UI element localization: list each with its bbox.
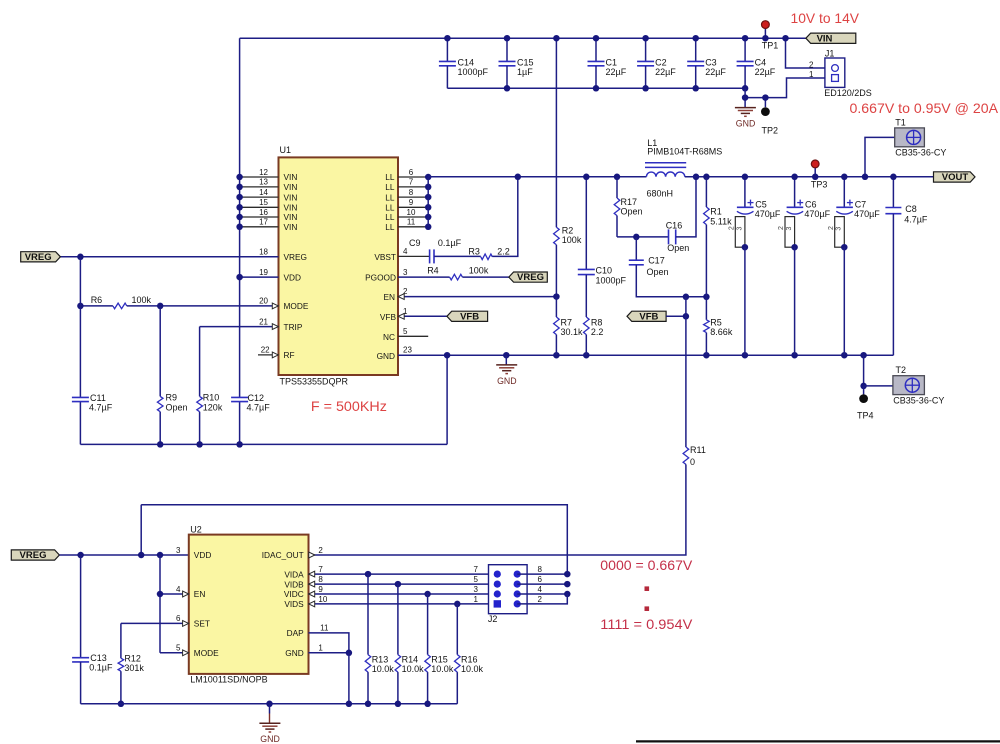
U2 pin 10 VIDS <box>309 603 498 605</box>
svg-text:7: 7 <box>409 178 414 187</box>
U2 pin 9 VIDC <box>309 593 498 595</box>
U1 pin 6 LL <box>398 176 428 178</box>
U1 pin 23 GND / main ground rail <box>398 354 893 356</box>
svg-text:20: 20 <box>259 297 268 306</box>
wire VREG vertical to C11 <box>79 257 81 398</box>
svg-text:2.2: 2.2 <box>591 327 604 337</box>
svg-text:3: 3 <box>736 227 743 231</box>
svg-text:3: 3 <box>474 585 479 594</box>
svg-text:R7: R7 <box>561 318 573 328</box>
capacitor C13 <box>80 555 82 658</box>
svg-text:LL: LL <box>385 182 395 192</box>
U1 pin 3 PGOOD <box>398 276 450 278</box>
svg-text:30.1k: 30.1k <box>561 327 584 337</box>
wire VFB flag to node <box>666 315 686 317</box>
svg-text:9: 9 <box>318 585 323 594</box>
svg-text:R14: R14 <box>402 655 419 665</box>
test point TP2 <box>764 98 766 108</box>
svg-text:22µF: 22µF <box>655 67 676 77</box>
capacitor C14 <box>446 38 448 61</box>
svg-text:VREG: VREG <box>284 252 308 262</box>
svg-text:SET: SET <box>194 619 210 629</box>
svg-text:10: 10 <box>318 595 327 604</box>
svg-text:R3: R3 <box>468 246 480 256</box>
svg-text:10.0k: 10.0k <box>431 664 454 674</box>
U1 pin 8 LL <box>398 196 428 198</box>
svg-text:3: 3 <box>786 227 793 231</box>
svg-text:VIDB: VIDB <box>284 579 304 589</box>
svg-text:VIN: VIN <box>284 222 298 232</box>
svg-text:Open: Open <box>667 243 689 253</box>
ground input <box>735 107 756 109</box>
resistor R13 <box>367 574 369 655</box>
svg-text:PIMB104T-R68MS: PIMB104T-R68MS <box>647 147 722 157</box>
capacitor C10 <box>585 177 587 269</box>
ground mid <box>505 355 507 365</box>
svg-text:C6: C6 <box>805 200 817 210</box>
U2 pin 6 SET <box>121 622 189 624</box>
svg-text:R4: R4 <box>427 265 439 275</box>
resistor R4 <box>450 274 463 280</box>
resistor R9 <box>159 306 161 397</box>
svg-text:22µF: 22µF <box>705 67 726 77</box>
wire loop left riser <box>140 505 142 555</box>
svg-text:LL: LL <box>385 203 395 213</box>
wire switch node rail to L1 <box>428 176 646 178</box>
U2 pin 11 DAP <box>309 633 349 653</box>
U1 pin 4 VBST <box>398 255 429 257</box>
svg-text:VIN: VIN <box>284 203 298 213</box>
svg-text:12: 12 <box>259 168 268 177</box>
svg-text:VIN: VIN <box>284 212 298 222</box>
svg-text:9: 9 <box>409 198 414 207</box>
svg-text:TP3: TP3 <box>811 180 828 190</box>
svg-text:C16: C16 <box>666 220 683 230</box>
svg-text:100k: 100k <box>469 265 489 275</box>
svg-text:VFB: VFB <box>460 311 479 322</box>
svg-text:C12: C12 <box>248 393 265 403</box>
resistor R5 <box>705 297 707 320</box>
wire input cap bottom rail <box>447 87 745 89</box>
U1 pin 20 MODE / resistor R6 net <box>80 305 113 307</box>
svg-text:VIN: VIN <box>284 172 298 182</box>
wire J2 pin 8 <box>517 573 567 575</box>
svg-text:14: 14 <box>259 188 268 197</box>
resistor R1 <box>703 174 710 181</box>
svg-text:R1: R1 <box>710 206 722 216</box>
wire J2 pin 6 <box>517 583 567 585</box>
svg-text:VFB: VFB <box>380 312 397 322</box>
U1 pin 13 VIN <box>240 186 279 188</box>
svg-text:VDD: VDD <box>194 550 212 560</box>
capacitor C9 <box>429 249 431 263</box>
svg-text:1: 1 <box>809 70 814 79</box>
svg-text:R10: R10 <box>203 392 220 402</box>
svg-text:VIDC: VIDC <box>284 589 304 599</box>
net flag VREG (U2) <box>11 550 59 560</box>
resistor R14 <box>397 584 399 655</box>
net flag VIN <box>806 33 856 43</box>
svg-text:GND: GND <box>497 376 517 386</box>
svg-text:R11: R11 <box>690 445 706 455</box>
annotation dots <box>645 586 650 591</box>
svg-text:T2: T2 <box>896 365 907 375</box>
svg-text:2.2: 2.2 <box>497 246 510 256</box>
svg-text:TP4: TP4 <box>857 410 874 420</box>
svg-text:F = 500KHz: F = 500KHz <box>311 398 387 414</box>
svg-text:1000pF: 1000pF <box>596 276 627 286</box>
test point TP1 <box>764 28 766 38</box>
wire left vertical below C12 <box>239 402 241 445</box>
svg-text:J2: J2 <box>488 614 498 624</box>
svg-text:22µF: 22µF <box>606 67 627 77</box>
wire riser to U1 GND rail <box>446 355 448 445</box>
svg-text:GND: GND <box>260 734 280 744</box>
U2 pin 8 VIDB <box>309 583 498 585</box>
net flag VREG (left) <box>21 252 61 262</box>
svg-text:C9: C9 <box>409 238 421 248</box>
capacitor C4 <box>744 38 746 61</box>
svg-text:LL: LL <box>385 212 395 222</box>
U2 pin 4 EN <box>159 555 161 653</box>
svg-text:R16: R16 <box>461 655 478 665</box>
svg-text:4.7µF: 4.7µF <box>904 214 928 224</box>
svg-text:LL: LL <box>385 222 395 232</box>
svg-text:120k: 120k <box>203 402 223 412</box>
connector J1 <box>825 58 845 87</box>
U1 pin 1 VFB <box>398 315 447 317</box>
capacitor C1 <box>595 38 597 61</box>
svg-text:VREG: VREG <box>20 550 47 561</box>
U1 pin 9 LL <box>398 206 428 208</box>
svg-text:16: 16 <box>259 208 268 217</box>
svg-text:8: 8 <box>538 565 543 574</box>
svg-text:Open: Open <box>166 402 188 412</box>
svg-text:C5: C5 <box>755 200 767 210</box>
svg-text:RF: RF <box>284 350 295 360</box>
svg-text:680nH: 680nH <box>647 188 674 198</box>
svg-text:0000 = 0.667V: 0000 = 0.667V <box>600 557 693 573</box>
resistor R16 <box>456 604 458 655</box>
wire left VIN vertical <box>239 38 241 397</box>
svg-text:R17: R17 <box>621 197 638 207</box>
svg-text:Open: Open <box>647 267 669 277</box>
resistor R3 <box>481 254 493 260</box>
capacitor C2 <box>645 38 647 61</box>
U1 pin 16 VIN <box>240 216 279 218</box>
svg-text:15: 15 <box>259 198 268 207</box>
svg-text:VREG: VREG <box>25 252 52 263</box>
svg-text:CB35-36-CY: CB35-36-CY <box>893 395 944 405</box>
svg-text:0: 0 <box>690 457 695 467</box>
svg-text:J1: J1 <box>825 49 835 59</box>
test terminal T2 <box>863 355 865 386</box>
svg-text:VIN: VIN <box>284 182 298 192</box>
svg-text:VFB: VFB <box>639 311 658 322</box>
U1 pin 18 VREG / wire from VREG flag <box>60 256 278 258</box>
svg-text:R6: R6 <box>91 295 103 305</box>
svg-text:DAP: DAP <box>287 628 305 638</box>
resistor R10 <box>199 327 201 397</box>
wire R17 to C16 <box>617 236 668 238</box>
svg-text:4: 4 <box>403 247 408 256</box>
svg-text:2: 2 <box>538 595 543 604</box>
U1 pin 19 VDD <box>240 276 279 278</box>
svg-text:470µF: 470µF <box>755 209 781 219</box>
svg-text:VIDA: VIDA <box>284 569 304 579</box>
svg-text:CB35-36-CY: CB35-36-CY <box>895 148 946 158</box>
test point TP4 <box>863 386 865 395</box>
svg-text:C15: C15 <box>517 58 534 68</box>
svg-text:C2: C2 <box>655 58 667 68</box>
wire VREG pull-up loop <box>141 505 567 574</box>
resistor R12 <box>120 623 122 658</box>
svg-text:6: 6 <box>538 575 543 584</box>
inductor L1 <box>646 172 684 177</box>
svg-text:22: 22 <box>261 346 270 355</box>
resistor R7 <box>555 297 557 317</box>
wire C9 to R3 <box>434 255 481 257</box>
ground symbol bottom <box>259 722 280 724</box>
svg-text:11: 11 <box>407 218 416 227</box>
svg-text:19: 19 <box>259 268 268 277</box>
svg-text:8.66k: 8.66k <box>710 327 733 337</box>
svg-text:VIDS: VIDS <box>284 599 304 609</box>
svg-text:0.1µF: 0.1µF <box>89 663 113 673</box>
capacitor C11 <box>72 396 89 398</box>
svg-text:1111 = 0.954V: 1111 = 0.954V <box>600 616 693 632</box>
svg-text:1: 1 <box>318 644 323 653</box>
capacitor C12 <box>231 396 248 398</box>
svg-text:22µF: 22µF <box>755 67 776 77</box>
net flag VOUT <box>934 172 976 182</box>
svg-text:C4: C4 <box>755 58 767 68</box>
svg-text:10.0k: 10.0k <box>461 664 484 674</box>
svg-text:R13: R13 <box>372 655 389 665</box>
svg-text:23: 23 <box>403 346 412 355</box>
svg-text:0.1µF: 0.1µF <box>438 238 462 248</box>
wire lower-left ground rail <box>80 443 447 445</box>
svg-text:GND: GND <box>377 351 395 361</box>
svg-text:100k: 100k <box>562 235 582 245</box>
capacitor C3 <box>695 38 697 61</box>
capacitor C15 <box>506 38 508 61</box>
svg-text:VIN: VIN <box>817 33 833 44</box>
net flag VFB (divider) <box>627 311 666 321</box>
svg-text:301k: 301k <box>124 663 144 673</box>
svg-text:VIN: VIN <box>284 192 298 202</box>
svg-text:3: 3 <box>176 546 181 555</box>
svg-text:R12: R12 <box>124 654 141 664</box>
wire VOUT rail <box>685 176 934 178</box>
capacitor C16 <box>668 229 670 244</box>
wire J2 pin 2 <box>517 594 567 604</box>
svg-text:1000pF: 1000pF <box>458 67 489 77</box>
svg-text:1µF: 1µF <box>517 67 533 77</box>
svg-text:C11: C11 <box>90 393 106 403</box>
resistor R2 <box>555 38 557 227</box>
svg-text:1: 1 <box>403 307 408 316</box>
svg-text:C3: C3 <box>705 58 717 68</box>
svg-text:3: 3 <box>403 268 408 277</box>
svg-text:2: 2 <box>403 287 408 296</box>
capacitor C8 <box>892 177 894 208</box>
ground symbol mid <box>496 364 517 366</box>
wire J2 pin 4 <box>517 593 567 595</box>
svg-text:GND: GND <box>736 119 756 129</box>
svg-text:21: 21 <box>259 317 268 326</box>
svg-text:7: 7 <box>474 565 479 574</box>
wire J1 pin 2 <box>786 38 825 68</box>
resistor R17 <box>614 174 621 181</box>
U2 pin 3 VDD wire <box>59 554 188 556</box>
capacitor C5 polarized <box>744 177 746 207</box>
svg-text:Open: Open <box>621 207 643 217</box>
op-amp U2 LM10011SD/NOPB body <box>189 535 309 674</box>
svg-text:5: 5 <box>176 644 181 653</box>
svg-text:2: 2 <box>809 60 814 69</box>
svg-text:EN: EN <box>194 589 206 599</box>
svg-text:8: 8 <box>409 188 414 197</box>
svg-text:0.667V to 0.95V @ 20A: 0.667V to 0.95V @ 20A <box>850 100 999 116</box>
U1 pin 12 VIN <box>240 176 279 178</box>
svg-text:U2: U2 <box>190 524 202 534</box>
U2 pin 5 MODE <box>160 652 189 654</box>
wire C17 to feedback node <box>636 265 706 297</box>
U1 pin 2 EN <box>398 296 556 298</box>
svg-text:4.7µF: 4.7µF <box>247 403 271 413</box>
svg-text:2: 2 <box>728 226 735 230</box>
U1 pin 10 LL <box>398 216 428 218</box>
svg-text:LM10011SD/NOPB: LM10011SD/NOPB <box>190 675 267 685</box>
svg-text:18: 18 <box>259 248 268 257</box>
test point TP3 <box>814 168 816 177</box>
svg-text:5.11k: 5.11k <box>710 216 732 226</box>
svg-text:VBST: VBST <box>374 252 396 262</box>
svg-text:VOUT: VOUT <box>942 172 969 183</box>
svg-text:4: 4 <box>176 585 181 594</box>
resistor R11 <box>685 297 687 447</box>
wire GND stub under C4 <box>744 88 746 107</box>
svg-text:TP1: TP1 <box>762 40 779 50</box>
svg-text:7: 7 <box>318 565 323 574</box>
svg-text:TP2: TP2 <box>762 125 779 135</box>
resistor R6 <box>113 303 127 309</box>
svg-text:C17: C17 <box>648 256 665 266</box>
svg-text:EN: EN <box>383 292 395 302</box>
svg-text:5: 5 <box>403 327 408 336</box>
svg-text:MODE: MODE <box>284 301 309 311</box>
U1 pin 17 VIN <box>240 226 279 228</box>
svg-text:R2: R2 <box>562 225 574 235</box>
capacitor C6 polarized <box>794 177 796 207</box>
svg-text:1: 1 <box>474 595 479 604</box>
svg-text:IDAC_OUT: IDAC_OUT <box>262 550 304 560</box>
svg-text:C14: C14 <box>458 58 475 68</box>
wire R3 to switch node <box>492 177 518 257</box>
svg-text:C10: C10 <box>596 265 613 275</box>
svg-text:MODE: MODE <box>194 648 219 658</box>
U1 pin 21 TRIP <box>200 326 279 328</box>
U1 pin 7 LL <box>398 186 428 188</box>
svg-text:R9: R9 <box>166 392 178 402</box>
svg-text:PGOOD: PGOOD <box>365 273 396 283</box>
svg-text:4.7µF: 4.7µF <box>89 403 113 413</box>
svg-text:NC: NC <box>383 332 395 342</box>
svg-text:LL: LL <box>385 192 395 202</box>
svg-text:5: 5 <box>474 575 479 584</box>
svg-text:R5: R5 <box>710 317 722 327</box>
net flag VREG (PGOOD) <box>509 272 548 282</box>
U1 pin 11 LL <box>398 226 428 228</box>
wire R4 to VREG flag <box>462 276 508 278</box>
svg-text:13: 13 <box>259 178 268 187</box>
svg-text:11: 11 <box>320 624 329 633</box>
capacitor C17 <box>633 234 640 241</box>
svg-text:LL: LL <box>385 172 395 182</box>
svg-text:TPS53355DQPR: TPS53355DQPR <box>280 376 349 386</box>
svg-text:C1: C1 <box>606 58 618 68</box>
wire C16 to rail <box>676 177 696 237</box>
U1 pin 5 NC <box>398 335 428 337</box>
svg-text:8: 8 <box>318 575 323 584</box>
svg-text:6: 6 <box>409 168 414 177</box>
title block border <box>636 740 1000 742</box>
svg-text:100k: 100k <box>132 295 152 305</box>
svg-text:VREG: VREG <box>517 272 544 283</box>
resistor R15 <box>427 594 429 655</box>
test terminal T1 <box>865 137 895 176</box>
svg-text:C7: C7 <box>855 200 867 210</box>
svg-text:2: 2 <box>828 226 835 230</box>
svg-text:10: 10 <box>407 208 416 217</box>
svg-text:10V to 14V: 10V to 14V <box>791 10 860 26</box>
ground bottom <box>269 704 271 714</box>
op-amp U1 TPS53355DQPR body <box>279 157 399 375</box>
U2 pin 2 IDAC_OUT <box>309 552 315 558</box>
svg-text:C13: C13 <box>90 653 107 663</box>
svg-text:T1: T1 <box>895 117 906 127</box>
wire LL bus vertical <box>427 177 429 227</box>
svg-text:4: 4 <box>538 585 543 594</box>
svg-text:GND: GND <box>285 648 303 658</box>
svg-text:R8: R8 <box>591 318 603 328</box>
U2 pin 7 VIDA <box>309 573 498 575</box>
svg-text:3: 3 <box>836 227 843 231</box>
U1 pin 14 VIN <box>240 196 279 198</box>
svg-text:ED120/2DS: ED120/2DS <box>824 88 872 98</box>
svg-text:470µF: 470µF <box>804 209 830 219</box>
wire R11 to IDAC_OUT <box>309 464 686 555</box>
connector J2 <box>489 565 528 614</box>
wire J1 pin 1 to GND <box>745 78 825 98</box>
capacitor C7 polarized <box>843 177 845 207</box>
svg-text:C8: C8 <box>905 204 917 214</box>
svg-text:10.0k: 10.0k <box>402 664 425 674</box>
U1 pin 22 RF <box>258 354 279 356</box>
svg-text:470µF: 470µF <box>854 209 880 219</box>
svg-text:10.0k: 10.0k <box>372 664 395 674</box>
wire bottom ground rail <box>81 703 458 705</box>
net flag VFB (U1) <box>447 311 488 321</box>
svg-text:U1: U1 <box>280 145 292 155</box>
svg-text:TRIP: TRIP <box>284 322 303 332</box>
U1 pin 15 VIN <box>240 206 279 208</box>
wire VIN top rail <box>240 37 806 39</box>
svg-text:VDD: VDD <box>284 272 302 282</box>
svg-text:2: 2 <box>778 226 785 230</box>
svg-text:17: 17 <box>259 218 268 227</box>
